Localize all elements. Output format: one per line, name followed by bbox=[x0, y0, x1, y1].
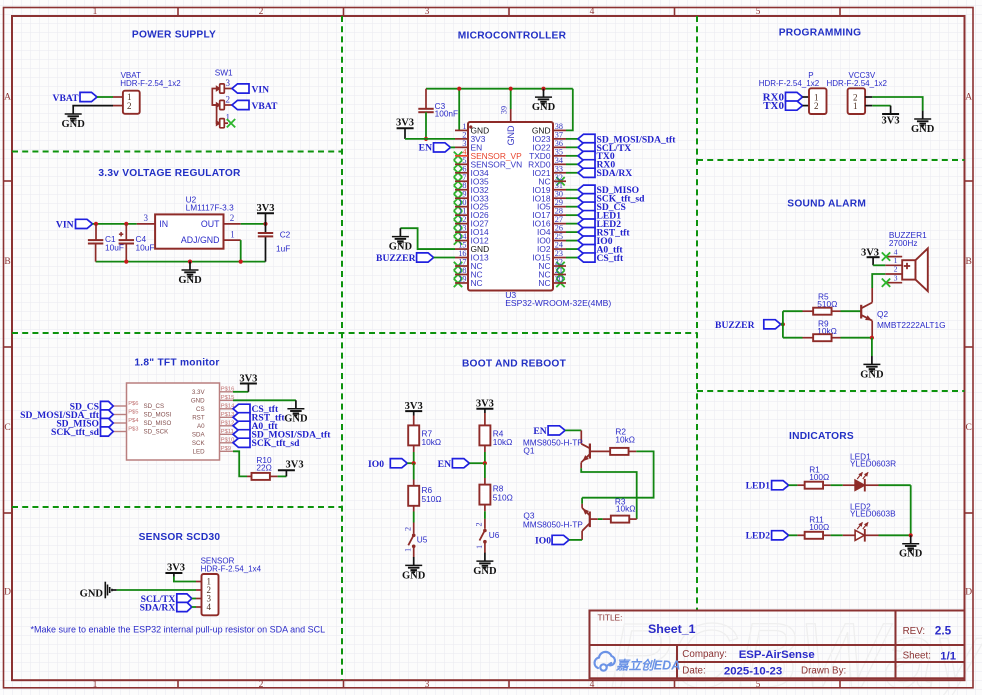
connector SENSOR HDR-F-2.54_1x4 bbox=[202, 574, 219, 615]
no-connect X at SW1 pin 1 bbox=[227, 119, 235, 127]
svg-text:LED1: LED1 bbox=[746, 481, 771, 492]
svg-text:TITLE:: TITLE: bbox=[598, 612, 623, 622]
svg-text:SDA: SDA bbox=[192, 432, 206, 439]
svg-text:D: D bbox=[965, 588, 972, 598]
svg-text:嘉立创EDA: 嘉立创EDA bbox=[615, 659, 680, 673]
svg-text:Date:: Date: bbox=[682, 666, 705, 677]
svg-text:Drawn By:: Drawn By: bbox=[801, 666, 846, 677]
wire LED1 to LED2 junction bbox=[910, 485, 912, 535]
wire junction to R8 bbox=[484, 463, 486, 478]
junction C4 top bbox=[124, 222, 128, 226]
svg-text:CS: CS bbox=[196, 406, 205, 413]
wire RX0 to P pin1 bbox=[803, 96, 810, 98]
svg-text:10kΩ: 10kΩ bbox=[493, 437, 513, 447]
svg-text:1: 1 bbox=[93, 7, 98, 17]
wire pin39 riser bbox=[510, 89, 512, 109]
svg-text:*Make sure to enable the ESP32: *Make sure to enable the ESP32 internal … bbox=[31, 625, 326, 635]
power 3V3 at R7 bbox=[405, 410, 422, 412]
svg-text:P$4: P$4 bbox=[128, 418, 139, 424]
wire Q1 emitter rail bbox=[581, 468, 637, 519]
section divider horizontal y=333 bbox=[12, 332, 697, 334]
svg-text:RST: RST bbox=[192, 415, 205, 422]
svg-text:1: 1 bbox=[404, 548, 413, 552]
svg-text:3.3v VOLTAGE REGULATOR: 3.3v VOLTAGE REGULATOR bbox=[98, 168, 241, 179]
svg-text:2: 2 bbox=[814, 101, 819, 111]
wire BUZZER to pin16 bbox=[434, 257, 455, 259]
svg-text:Sheet:: Sheet: bbox=[903, 650, 931, 661]
wire TFT GND bbox=[233, 399, 296, 401]
svg-text:2: 2 bbox=[474, 522, 483, 526]
wire IO0 to junction bbox=[407, 462, 413, 464]
svg-text:B: B bbox=[966, 257, 972, 267]
svg-text:TX0: TX0 bbox=[763, 100, 784, 112]
junction GND on rail bbox=[188, 260, 192, 264]
svg-text:1: 1 bbox=[475, 545, 484, 549]
resistor R6 510 bbox=[408, 486, 419, 506]
svg-text:P$5: P$5 bbox=[128, 409, 138, 415]
svg-text:Q1: Q1 bbox=[523, 446, 534, 456]
connector VCC3V HDR-F-2.54_1x2 bbox=[848, 88, 866, 114]
svg-text:SD_SCK: SD_SCK bbox=[144, 429, 170, 436]
svg-text:INDICATORS: INDICATORS bbox=[789, 431, 854, 442]
junction EN node bbox=[483, 461, 487, 465]
wire LED1 to R1 bbox=[789, 484, 798, 486]
svg-text:HDR-F-2.54_1x2: HDR-F-2.54_1x2 bbox=[120, 79, 181, 88]
svg-text:3V3: 3V3 bbox=[882, 116, 900, 127]
junction C3 bottom bbox=[424, 137, 428, 141]
wire U3 right to LED1 bbox=[566, 214, 578, 216]
svg-text:HDR-F-2.54_1x4: HDR-F-2.54_1x4 bbox=[201, 564, 262, 573]
wire U3 right to RST_tft bbox=[566, 231, 578, 233]
svg-text:P$3: P$3 bbox=[128, 426, 138, 432]
svg-text:MMS8050-H-TP: MMS8050-H-TP bbox=[523, 519, 583, 529]
ground GND at MCU rail bbox=[543, 89, 545, 97]
svg-text:22Ω: 22Ω bbox=[256, 462, 271, 472]
svg-text:GND: GND bbox=[80, 588, 104, 599]
wire R1 to LED1 bbox=[831, 484, 843, 486]
buzzer BUZZER1 symbol bbox=[902, 260, 915, 279]
no-connect X marks U3 right bbox=[556, 177, 564, 185]
wire P1 pin 2 to GND bbox=[73, 105, 113, 108]
svg-text:U5: U5 bbox=[417, 535, 428, 545]
wire TFT LED to R10 bbox=[233, 451, 247, 476]
microcontroller U3 ESP32-WROOM-32E(4MB) bbox=[468, 122, 553, 291]
wire GND to sensor pin2 bbox=[117, 589, 196, 591]
svg-text:2025-10-23: 2025-10-23 bbox=[724, 665, 782, 677]
wire U3 pin15 to GND bbox=[400, 228, 455, 249]
svg-text:GND: GND bbox=[178, 275, 202, 286]
connector P HDR-F-2.54_1x2 bbox=[809, 88, 827, 114]
wire U3 right to LED2 bbox=[566, 223, 578, 225]
svg-text:VIN: VIN bbox=[252, 84, 270, 95]
power 3V3 at VCC3V (inverted) bbox=[890, 106, 892, 114]
svg-text:1: 1 bbox=[853, 101, 858, 111]
svg-text:5: 5 bbox=[756, 680, 761, 690]
wire C3 to 3V3 net bbox=[425, 112, 427, 139]
ground GND at U6 bbox=[484, 553, 486, 561]
svg-text:BUZZER: BUZZER bbox=[376, 253, 417, 264]
svg-text:BUZZER: BUZZER bbox=[715, 320, 756, 331]
svg-text:1: 1 bbox=[894, 256, 898, 265]
Q3 collector to R3 bbox=[590, 518, 598, 520]
ground GND at TFT bbox=[295, 400, 297, 408]
resistor R4 10k bbox=[484, 413, 486, 426]
section divider horizontal right y=391 bbox=[697, 390, 965, 392]
wire U3 right to CS_tft bbox=[566, 257, 578, 259]
svg-text:100Ω: 100Ω bbox=[809, 522, 829, 532]
no-connect X marks U3 left bbox=[454, 152, 462, 160]
wire EN to Q1 base bbox=[565, 429, 581, 431]
net flag LED2 bbox=[578, 219, 595, 228]
SW1 pin 3 stub bbox=[224, 88, 232, 90]
ground GND at VCC3V bbox=[922, 111, 924, 119]
SW1 pin 1 stub bbox=[224, 122, 228, 124]
junction C4 bottom bbox=[124, 260, 128, 264]
svg-text:GND: GND bbox=[284, 414, 308, 425]
svg-text:GND: GND bbox=[899, 549, 923, 560]
svg-text:SW1: SW1 bbox=[215, 68, 233, 78]
wire IO0 to Q3 base bbox=[569, 539, 582, 541]
wire R2 to Q3 emitter net bbox=[582, 451, 654, 497]
net flag RST_tft at TFT right bbox=[233, 413, 250, 422]
svg-text:NC: NC bbox=[471, 278, 483, 288]
section divider horizontal left y=507 bbox=[12, 506, 342, 508]
svg-text:3: 3 bbox=[226, 78, 231, 88]
wire junction to R6 bbox=[413, 463, 415, 479]
svg-text:SENSOR SCD30: SENSOR SCD30 bbox=[139, 532, 221, 543]
wire top GND rail bbox=[426, 88, 573, 90]
svg-text:4: 4 bbox=[590, 680, 595, 690]
svg-text:REV:: REV: bbox=[903, 626, 926, 637]
junction Q2 emitter bbox=[870, 336, 874, 340]
svg-text:3: 3 bbox=[425, 7, 430, 17]
svg-text:SDA/RX: SDA/RX bbox=[140, 602, 176, 613]
svg-text:3: 3 bbox=[894, 273, 898, 282]
wire U3 right to A0_tft bbox=[566, 248, 578, 250]
svg-text:GND: GND bbox=[473, 566, 497, 577]
svg-text:1uF: 1uF bbox=[276, 244, 290, 254]
svg-text:3V3: 3V3 bbox=[239, 373, 257, 384]
power 3V3 at R10 bbox=[285, 470, 287, 476]
svg-text:U6: U6 bbox=[489, 530, 500, 540]
svg-text:100Ω: 100Ω bbox=[809, 472, 829, 482]
U3 right pins 38-20 bbox=[553, 129, 566, 131]
svg-text:3V3: 3V3 bbox=[396, 118, 414, 129]
svg-text:10kΩ: 10kΩ bbox=[615, 435, 635, 445]
U2 ADJ pin stub bbox=[224, 239, 241, 241]
svg-text:BOOT AND REBOOT: BOOT AND REBOOT bbox=[462, 358, 567, 369]
svg-text:3V3: 3V3 bbox=[286, 459, 304, 470]
capacitor C3 100nF bbox=[418, 108, 433, 110]
power 3V3 at regulator output bbox=[257, 212, 274, 214]
wire buzzer pin2 to Q2 collector bbox=[872, 274, 885, 288]
wire U3 right to SD_CS bbox=[566, 206, 578, 208]
svg-text:YLED0603R: YLED0603R bbox=[850, 459, 896, 469]
svg-text:P$15: P$15 bbox=[221, 395, 235, 401]
wire rail right drop to pin38 bbox=[566, 89, 573, 131]
net flag SCK_tft_sd bbox=[578, 194, 595, 203]
U3 left pins 1-19 bbox=[455, 129, 468, 131]
svg-text:2: 2 bbox=[404, 527, 413, 531]
wire VCC3V pin2 to GND bbox=[872, 97, 922, 111]
row ticks left bbox=[4, 180, 13, 182]
wire U5 to GND bbox=[413, 548, 415, 557]
svg-text:SDA/RX: SDA/RX bbox=[597, 168, 633, 179]
net flag LED1 bbox=[578, 211, 595, 220]
TFT right pins bbox=[220, 391, 234, 393]
no-connect X buzzer pin3 bbox=[882, 279, 890, 287]
section divider vertical x=697 bbox=[696, 16, 698, 611]
svg-text:EN: EN bbox=[533, 426, 546, 437]
net flag A0_tft at TFT right bbox=[233, 421, 250, 430]
wire C4 leads bbox=[125, 224, 127, 240]
net flag SDA/RX bbox=[578, 168, 595, 177]
svg-text:Q2: Q2 bbox=[877, 309, 888, 319]
power 3V3 at R4 bbox=[476, 408, 493, 410]
svg-text:GND: GND bbox=[389, 242, 413, 253]
wire to R5 bbox=[783, 310, 803, 312]
svg-text:ADJ/GND: ADJ/GND bbox=[181, 235, 220, 245]
row ticks right bbox=[965, 180, 974, 182]
column ticks top bbox=[177, 8, 179, 17]
ground GND at P1 bbox=[72, 106, 74, 114]
svg-text:510Ω: 510Ω bbox=[493, 493, 513, 503]
Q1 collector to R2 bbox=[590, 450, 611, 452]
svg-text:SD_CS: SD_CS bbox=[144, 403, 165, 410]
wire R6 to U5 bbox=[413, 506, 415, 512]
svg-text:VIN: VIN bbox=[56, 219, 74, 230]
svg-text:2.5: 2.5 bbox=[935, 623, 952, 637]
svg-text:MMBT2222ALT1G: MMBT2222ALT1G bbox=[877, 320, 946, 330]
svg-text:GND: GND bbox=[62, 119, 86, 130]
column ticks bottom bbox=[177, 680, 179, 688]
svg-text:3.3V: 3.3V bbox=[192, 389, 206, 396]
svg-text:Company:: Company: bbox=[682, 649, 727, 660]
U2 OUT pin stub bbox=[224, 223, 241, 225]
svg-text:VBAT: VBAT bbox=[53, 93, 80, 104]
svg-text:39: 39 bbox=[500, 106, 509, 114]
svg-text:IO0: IO0 bbox=[535, 536, 551, 547]
svg-text:GND: GND bbox=[402, 570, 426, 581]
svg-text:1.8" TFT monitor: 1.8" TFT monitor bbox=[134, 357, 219, 368]
svg-text:SCK_tft_sd: SCK_tft_sd bbox=[252, 438, 301, 449]
wire U6 to GND bbox=[484, 543, 486, 553]
wire LED1 cathode bbox=[865, 484, 879, 486]
svg-text:B: B bbox=[4, 257, 10, 267]
svg-text:3V3: 3V3 bbox=[405, 401, 423, 412]
junction at OUT node bbox=[263, 222, 267, 226]
no-connect X buzzer pin4 bbox=[882, 252, 890, 260]
resistor R8 510 bbox=[479, 485, 490, 505]
ground GND at Q2 bbox=[871, 356, 873, 364]
svg-text:2: 2 bbox=[259, 7, 264, 17]
wire R4 to junction bbox=[484, 445, 486, 452]
net flag TX0 bbox=[578, 151, 595, 160]
svg-text:ESP32-WROOM-32E(4MB): ESP32-WROOM-32E(4MB) bbox=[505, 298, 611, 308]
SW1 pin 2 stub bbox=[224, 104, 232, 106]
wire U3 right to SDA/RX bbox=[566, 172, 578, 174]
svg-text:4: 4 bbox=[207, 602, 212, 612]
svg-text:GND: GND bbox=[911, 124, 935, 135]
junction BUZZER node bbox=[781, 322, 785, 326]
svg-text:HDR-F-2.54_1x2: HDR-F-2.54_1x2 bbox=[759, 79, 820, 88]
section divider horizontal left y=151.5 bbox=[12, 151, 342, 153]
svg-text:SCK_tft_sd: SCK_tft_sd bbox=[51, 427, 100, 438]
net flag CS_tft at TFT right bbox=[233, 404, 250, 413]
wire U3 right to SD_MOSI/SDA_tft bbox=[566, 138, 578, 140]
svg-text:3V3: 3V3 bbox=[167, 563, 185, 574]
svg-text:CS_tft: CS_tft bbox=[597, 253, 624, 264]
svg-text:POWER SUPPLY: POWER SUPPLY bbox=[132, 30, 216, 41]
svg-text:PROGRAMMING: PROGRAMMING bbox=[779, 27, 862, 38]
power 3V3 at TFT bbox=[240, 383, 257, 385]
wire BUZZER node vertical bbox=[782, 311, 784, 338]
svg-text:EN: EN bbox=[419, 143, 432, 154]
wire U3 right to SD_MISO bbox=[566, 189, 578, 191]
svg-text:C: C bbox=[4, 423, 10, 433]
svg-text:10kΩ: 10kΩ bbox=[422, 437, 442, 447]
svg-text:IO0: IO0 bbox=[368, 459, 384, 470]
U3 top pin 39 GND bbox=[510, 109, 512, 122]
svg-text:GND: GND bbox=[191, 398, 205, 405]
wire U3 right to SCK_tft_sd bbox=[566, 197, 578, 199]
wire R9 to emitter junction bbox=[841, 337, 872, 339]
junction rail gnd bbox=[541, 87, 545, 91]
section divider vertical x=342 bbox=[341, 16, 343, 680]
ground GND at U5 bbox=[413, 557, 415, 565]
capacitor C1 10uF bbox=[88, 239, 103, 241]
svg-text:510Ω: 510Ω bbox=[422, 494, 442, 504]
junction ADJ on rail bbox=[239, 260, 243, 264]
wire C1 top bbox=[95, 224, 97, 240]
net flag RX0 bbox=[578, 160, 595, 169]
net flag SCL/TX bbox=[578, 143, 595, 152]
svg-text:20: 20 bbox=[555, 274, 563, 283]
svg-text:MICROCONTROLLER: MICROCONTROLLER bbox=[458, 31, 567, 42]
net flag SD_MOSI/SDA_tft at TFT right bbox=[233, 430, 250, 439]
wire U3 right to RX0 bbox=[566, 163, 578, 165]
wire R10 to 3V3 bbox=[278, 475, 287, 477]
svg-text:SD_MOSI: SD_MOSI bbox=[144, 412, 172, 419]
svg-text:2: 2 bbox=[127, 101, 132, 111]
svg-text:10kΩ: 10kΩ bbox=[616, 504, 636, 514]
svg-text:SCK: SCK bbox=[192, 440, 206, 447]
wire LED2 to R11 bbox=[789, 534, 798, 536]
net flag SD_MOSI/SDA_tft bbox=[578, 134, 595, 143]
wire EN to junction bbox=[469, 462, 485, 464]
svg-text:VBAT: VBAT bbox=[252, 101, 279, 112]
wire LED2 cathode bbox=[865, 534, 879, 536]
svg-text:SOUND ALARM: SOUND ALARM bbox=[787, 199, 866, 210]
wire VCC3V pin1 to 3V3 bbox=[872, 105, 890, 107]
svg-text:4: 4 bbox=[894, 247, 898, 256]
ground GND at indicators bbox=[910, 535, 912, 543]
net flag CS_tft bbox=[578, 253, 595, 262]
svg-text:4: 4 bbox=[590, 7, 595, 17]
wire 3V3 to buzzer pin1 bbox=[873, 264, 885, 266]
svg-text:5: 5 bbox=[756, 7, 761, 17]
wire 3V3 to sensor pin1 bbox=[174, 577, 196, 582]
svg-text:3V3: 3V3 bbox=[476, 399, 494, 410]
svg-text:Sheet_1: Sheet_1 bbox=[648, 622, 696, 636]
junction at VIN node bbox=[94, 222, 98, 226]
wire ADJ down to ground rail bbox=[240, 240, 242, 262]
svg-text:HDR-F-2.54_1x2: HDR-F-2.54_1x2 bbox=[827, 79, 888, 88]
buzzer pin stubs bbox=[885, 256, 902, 258]
svg-text:C2: C2 bbox=[280, 229, 291, 239]
wire EN to pin 3 bbox=[451, 146, 456, 148]
svg-text:2: 2 bbox=[259, 680, 264, 690]
svg-text:C: C bbox=[966, 423, 972, 433]
svg-text:1: 1 bbox=[93, 680, 98, 690]
wire to R9 bbox=[783, 337, 803, 339]
junction rail pin1 bbox=[457, 87, 461, 91]
svg-text:3: 3 bbox=[425, 680, 430, 690]
wire C2 leads bbox=[265, 224, 267, 233]
svg-text:EN: EN bbox=[438, 459, 451, 470]
svg-text:2: 2 bbox=[894, 265, 898, 274]
wire U3 right to TX0 bbox=[566, 155, 578, 157]
svg-text:19: 19 bbox=[458, 274, 466, 283]
VCC3V pin stubs bbox=[865, 96, 872, 98]
svg-text:100nF: 100nF bbox=[435, 109, 459, 119]
net flag SD_CS bbox=[578, 202, 595, 211]
svg-text:LED2: LED2 bbox=[746, 531, 771, 542]
capacitor C4 10uF polarized bbox=[119, 239, 134, 241]
ground GND at U3 pin15 bbox=[399, 228, 401, 236]
net flag VBAT at SW1 bbox=[232, 100, 249, 109]
svg-text:2: 2 bbox=[226, 95, 231, 105]
net flag SCK_tft_sd at TFT right bbox=[233, 438, 250, 447]
title block frame bbox=[590, 611, 965, 679]
wire 3V3 to pin 2 bbox=[405, 138, 455, 140]
wire R11 to LED2 bbox=[831, 534, 843, 536]
svg-text:GND: GND bbox=[860, 369, 884, 380]
svg-text:NC: NC bbox=[538, 278, 550, 288]
TFT module box bbox=[127, 383, 220, 460]
wire U3 right to IO0 bbox=[566, 240, 578, 242]
logo JLC EDA bbox=[595, 652, 615, 671]
svg-text:1/1: 1/1 bbox=[940, 651, 956, 663]
net flag IO0 bbox=[578, 236, 595, 245]
wire VBAT to P1 pin 1 bbox=[97, 96, 113, 98]
svg-text:LM1117F-3.3: LM1117F-3.3 bbox=[186, 202, 235, 212]
junction rail pin39 bbox=[509, 87, 513, 91]
capacitor C2 1uF bbox=[258, 232, 273, 234]
svg-text:LED: LED bbox=[193, 449, 206, 456]
wire R5 to Q2 base bbox=[841, 310, 862, 312]
TFT left pins bbox=[113, 405, 126, 407]
wire R7 to junction bbox=[413, 445, 415, 452]
ground rail wire bbox=[96, 261, 266, 263]
svg-text:GND: GND bbox=[532, 102, 556, 113]
junction LED GND bbox=[909, 533, 913, 537]
net flag VIN at SW1 bbox=[232, 84, 249, 93]
transistor Q2 MMBT2222ALT1G bbox=[860, 305, 862, 319]
net flag RST_tft bbox=[578, 228, 595, 237]
svg-text:GND: GND bbox=[506, 125, 516, 146]
wire VIN to U2 IN bbox=[93, 223, 137, 225]
net flag A0_tft bbox=[578, 244, 595, 253]
ground GND at regulator bbox=[189, 262, 191, 270]
junction IO0 node bbox=[412, 461, 416, 465]
svg-text:OUT: OUT bbox=[201, 219, 220, 229]
svg-text:P$16: P$16 bbox=[221, 387, 235, 393]
svg-text:A: A bbox=[4, 93, 11, 103]
resistor R7 10k bbox=[413, 416, 415, 426]
wire TFT 3.3V to 3V3 bbox=[233, 391, 248, 393]
section divider horizontal right y=160 bbox=[697, 159, 965, 161]
